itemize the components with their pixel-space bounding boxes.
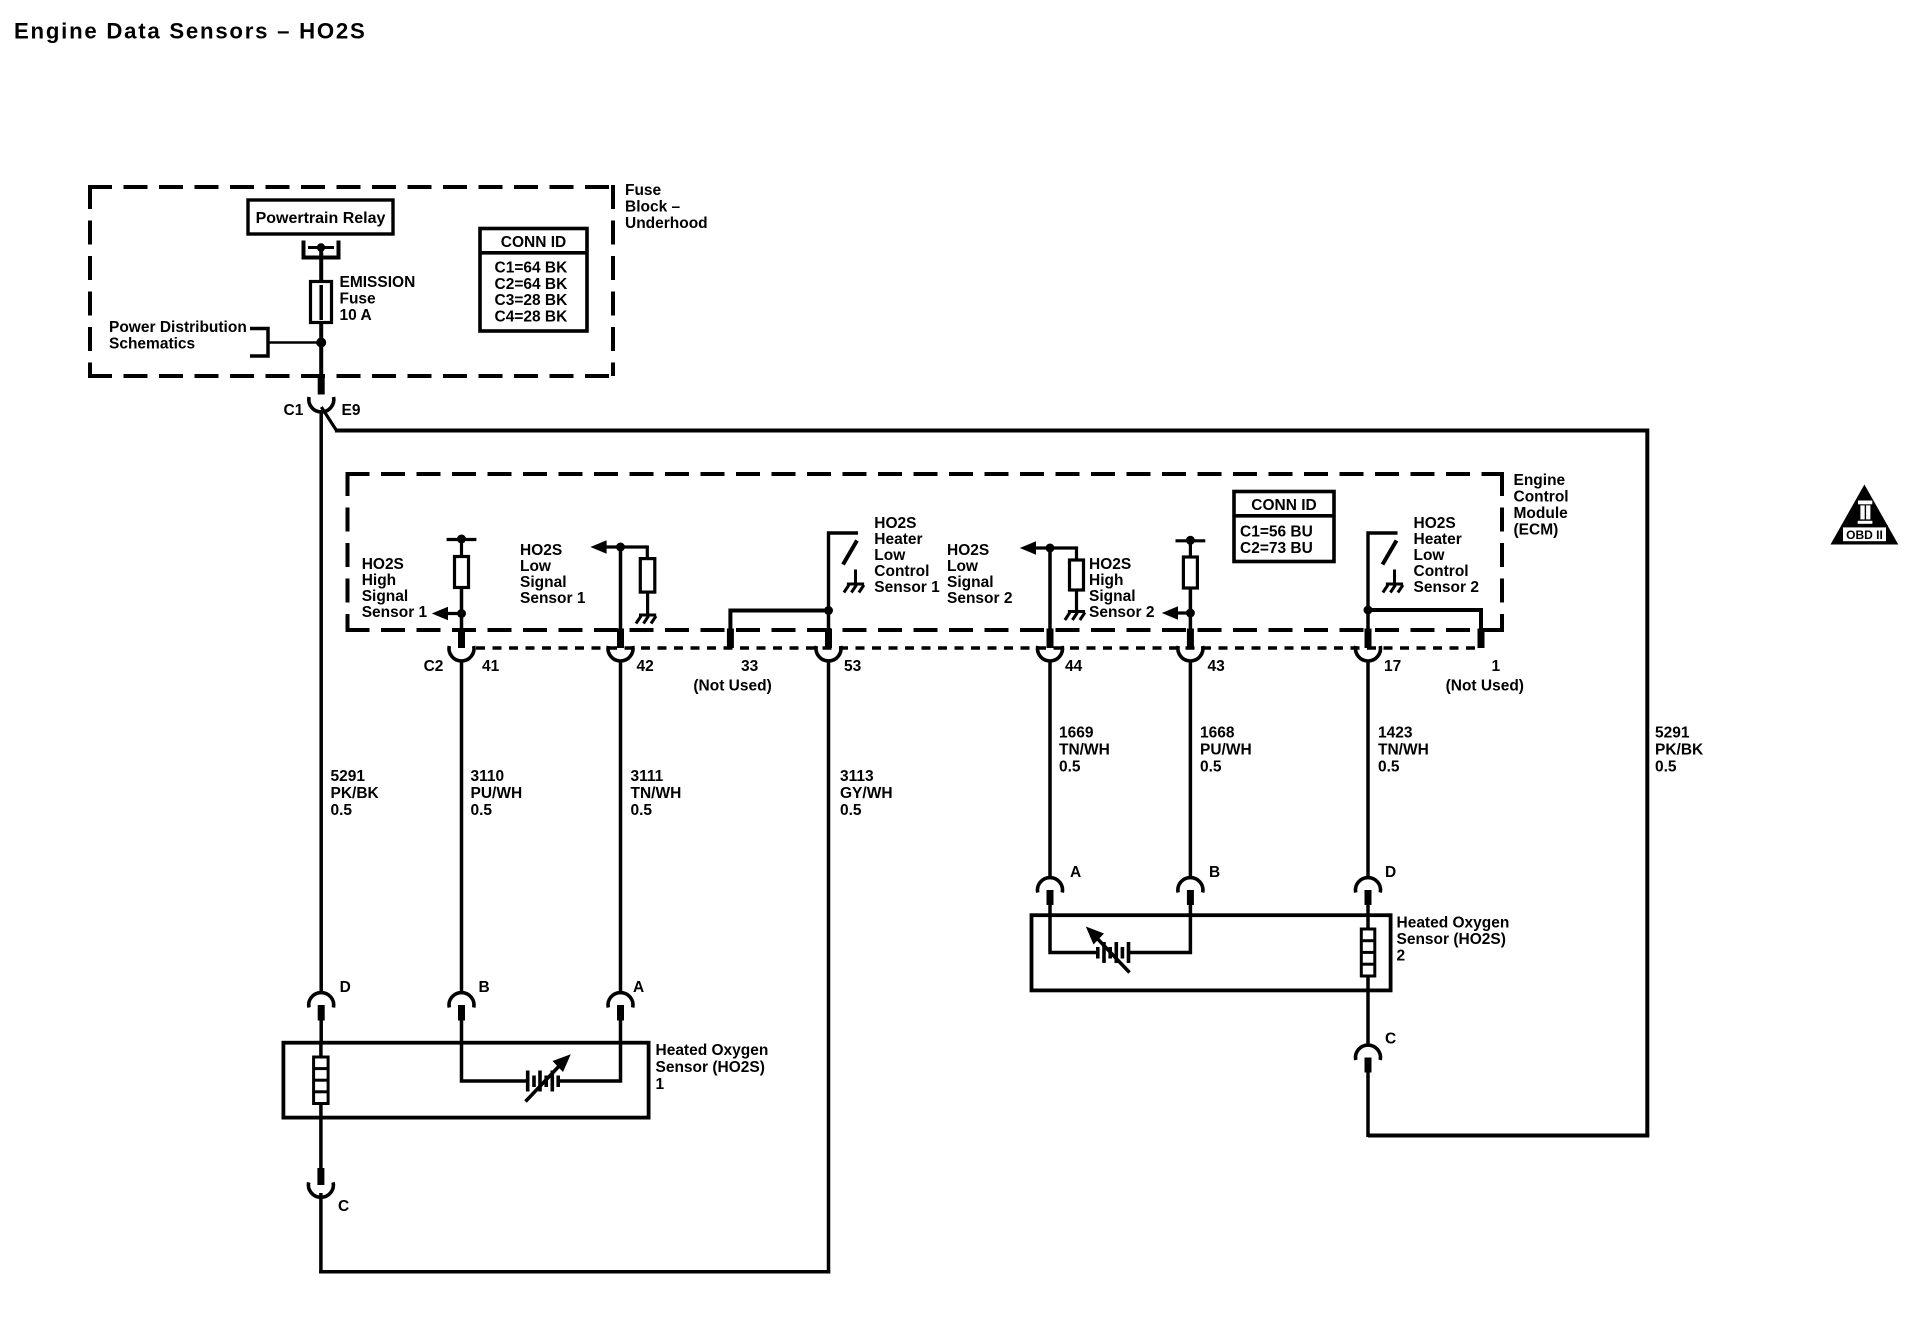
ECM dashed box — [346, 472, 1505, 630]
ground stub sensor2 heater — [1393, 570, 1396, 584]
label HO2S Low Signal Sensor 2 — [947, 542, 1012, 607]
svg-text:HO2S: HO2S — [520, 542, 562, 559]
svg-text:1669: 1669 — [1059, 725, 1094, 742]
svg-text:Heater: Heater — [1414, 531, 1462, 548]
svg-text:0.5: 0.5 — [631, 802, 653, 819]
heater element (HO2S1) — [314, 1042, 329, 1118]
svg-text:(ECM): (ECM) — [1514, 522, 1559, 539]
junction dot pin 53 — [824, 606, 833, 615]
junction dot pin 17 — [1364, 606, 1373, 615]
connector D (HO2S1) — [309, 979, 351, 1021]
svg-text:Heated Oxygen: Heated Oxygen — [1397, 915, 1510, 932]
connector A (HO2S1) — [608, 979, 644, 1021]
resistor R1 (pin 41) — [455, 557, 469, 588]
svg-text:Signal: Signal — [520, 574, 567, 591]
svg-text:Control: Control — [1514, 489, 1569, 506]
wire E9 diagonal — [321, 407, 336, 431]
svg-text:0.5: 0.5 — [1059, 759, 1081, 776]
wire pin 44 vertical — [1048, 548, 1052, 630]
junction dot — [316, 338, 326, 348]
connector D (HO2S2) — [1356, 864, 1397, 905]
svg-text:1: 1 — [1492, 658, 1501, 675]
pin 33 stub (not used) — [727, 629, 734, 649]
junction dot on T-bar — [1186, 536, 1195, 545]
svg-text:Underhood: Underhood — [625, 215, 708, 232]
svg-text:PU/WH: PU/WH — [471, 785, 523, 802]
pin 41 arc — [449, 646, 474, 661]
svg-text:53: 53 — [844, 658, 862, 675]
wire D to box — [1366, 904, 1370, 917]
wire right vertical 5291 — [1645, 429, 1649, 1136]
sensing element wire B (HO2S2) — [1130, 914, 1190, 953]
powertrain relay box — [248, 200, 393, 234]
svg-text:(Not Used): (Not Used) — [1446, 678, 1524, 695]
svg-text:PK/BK: PK/BK — [1655, 742, 1704, 759]
pin 17 arc — [1356, 646, 1381, 661]
svg-text:Low: Low — [1414, 547, 1446, 564]
svg-text:C2: C2 — [424, 658, 444, 675]
pin 42 stub — [617, 629, 624, 649]
svg-text:Low: Low — [947, 558, 979, 575]
connector B (HO2S1) — [449, 979, 490, 1021]
wire bracket to junction — [268, 341, 321, 344]
fuse block underhood dashed box — [88, 185, 615, 376]
wire B to box — [460, 1019, 464, 1044]
svg-text:Sensor 2: Sensor 2 — [1414, 579, 1479, 596]
wire 3111 TN/WH (42 to A) — [619, 661, 623, 994]
svg-text:Fuse: Fuse — [625, 182, 662, 199]
svg-text:Engine: Engine — [1514, 472, 1566, 489]
svg-text:Fuse: Fuse — [340, 291, 377, 308]
wire D to box — [319, 1019, 323, 1044]
connector C (HO2S2) — [1356, 1031, 1397, 1073]
sensing element wire A (HO2S2) — [1050, 914, 1097, 953]
switch blade sensor1 — [843, 541, 857, 565]
pin 44 arc — [1038, 646, 1063, 661]
svg-text:C1=56 BU: C1=56 BU — [1240, 524, 1313, 541]
svg-text:EMISSION: EMISSION — [340, 274, 416, 291]
wire rail corner down to resistor — [1075, 546, 1078, 561]
svg-text:0.5: 0.5 — [331, 802, 353, 819]
jumper wire 17 to 1 — [1368, 610, 1481, 630]
svg-text:5291: 5291 — [331, 768, 366, 785]
connector pin line (dotted) — [476, 646, 1477, 649]
label HO2S Low Signal Sensor 1 — [520, 542, 586, 607]
svg-text:Control: Control — [1414, 563, 1469, 580]
connector B (HO2S2) — [1178, 864, 1220, 905]
wire 3110 PU/WH (41 to B) — [460, 661, 464, 994]
svg-text:High: High — [362, 572, 396, 589]
pin 53 arc — [816, 646, 841, 661]
svg-text:OBD II: OBD II — [1846, 528, 1883, 542]
svg-text:A: A — [633, 979, 644, 996]
arrow to sensor2 low label — [1162, 606, 1195, 619]
ground (heater control sensor2) — [1383, 584, 1403, 593]
connector C (HO2S1) — [308, 1168, 349, 1215]
svg-text:C1: C1 — [284, 402, 304, 419]
svg-text:C1=64 BK: C1=64 BK — [495, 260, 569, 277]
svg-text:43: 43 — [1208, 658, 1226, 675]
fuse value label — [340, 274, 416, 324]
svg-text:B: B — [1209, 864, 1220, 881]
svg-text:CONN ID: CONN ID — [501, 234, 566, 251]
svg-text:E9: E9 — [342, 402, 361, 419]
sensing element wire A (HO2S1) — [560, 1042, 621, 1081]
jumper wire 33 to 53 — [730, 611, 828, 631]
svg-text:D: D — [1385, 864, 1396, 881]
relay K1 contact symbol — [304, 241, 339, 258]
svg-text:(Not Used): (Not Used) — [693, 678, 771, 695]
wire A to box — [1048, 904, 1052, 917]
svg-text:HO2S: HO2S — [1089, 556, 1131, 573]
wire label 1669 TN/WH 0.5 — [1059, 725, 1110, 776]
svg-text:Engine Data Sensors – HO2S: Engine Data Sensors – HO2S — [14, 19, 367, 44]
svg-text:C: C — [338, 1198, 349, 1215]
wire D2 below box to C — [1366, 990, 1370, 1046]
label Engine Control Module (ECM) — [1514, 472, 1569, 539]
ground (sensor2 high) — [1065, 612, 1085, 621]
svg-text:TN/WH: TN/WH — [1059, 742, 1110, 759]
CONN ID table (fuse block) — [480, 229, 587, 332]
svg-text:HO2S: HO2S — [362, 556, 404, 573]
svg-text:C2=64 BK: C2=64 BK — [495, 276, 569, 293]
wire bottom right horizontal — [1368, 1134, 1649, 1138]
OBD II symbol — [1831, 485, 1899, 545]
HO2S 1 box — [283, 1043, 648, 1118]
svg-text:0.5: 0.5 — [471, 802, 493, 819]
variable arrow (HO2S2) — [1086, 927, 1130, 973]
wire label 5291 PK/BK 0.5 (left) — [331, 768, 380, 819]
label HO2S High Signal Sensor 2 — [1089, 556, 1154, 621]
svg-text:HO2S: HO2S — [1414, 515, 1456, 532]
svg-text:0.5: 0.5 — [1655, 759, 1677, 776]
wire A to box — [619, 1019, 623, 1044]
resistor R2 (sensor1 low) — [640, 559, 655, 593]
internal rail T-bar pin41 — [447, 538, 477, 541]
switch L-wire pin 17 — [1368, 533, 1398, 611]
power distribution bracket — [250, 329, 268, 357]
variable sensing element bars (HO2S2) — [1098, 942, 1129, 963]
connector C1 pin E9 — [284, 377, 361, 419]
label Fuse Block Underhood — [625, 182, 708, 232]
svg-text:0.5: 0.5 — [1378, 759, 1400, 776]
wire junction to pin 17 — [1366, 610, 1370, 630]
wire resistor to pin 43 — [1189, 588, 1193, 630]
svg-text:Heater: Heater — [874, 531, 922, 548]
svg-text:Heated Oxygen: Heated Oxygen — [656, 1042, 769, 1059]
svg-text:D: D — [340, 979, 351, 996]
CONN ID table (ECM) — [1234, 492, 1334, 562]
svg-text:0.5: 0.5 — [840, 802, 862, 819]
svg-text:HO2S: HO2S — [947, 542, 989, 559]
svg-text:Signal: Signal — [947, 574, 994, 591]
arrow + rail pin 44 — [1020, 541, 1077, 554]
wire label 3113 GY/WH 0.5 — [840, 768, 893, 819]
svg-text:Sensor 2: Sensor 2 — [947, 590, 1012, 607]
wire label 3111 TN/WH 0.5 — [631, 768, 682, 819]
svg-text:33: 33 — [741, 658, 759, 675]
wire junction to pin 53 — [827, 611, 831, 631]
svg-text:Schematics: Schematics — [109, 336, 195, 353]
pin 53 stub — [825, 629, 832, 649]
junction dot on T-bar — [457, 535, 466, 544]
svg-text:Signal: Signal — [362, 588, 409, 605]
svg-text:0.5: 0.5 — [1200, 759, 1222, 776]
svg-text:Sensor 1: Sensor 1 — [874, 579, 940, 596]
svg-text:1668: 1668 — [1200, 725, 1235, 742]
svg-text:PU/WH: PU/WH — [1200, 742, 1252, 759]
wire label 1423 TN/WH 0.5 — [1378, 725, 1429, 776]
svg-text:B: B — [479, 979, 490, 996]
pin 1 stub (not used) — [1478, 629, 1485, 649]
wire relay to fuse — [319, 249, 323, 282]
wire D below box to C — [319, 1117, 323, 1169]
variable arrow (HO2S1) — [526, 1054, 571, 1101]
wire 1669 TN/WH (44 to A) — [1048, 661, 1052, 879]
svg-text:1423: 1423 — [1378, 725, 1413, 742]
svg-text:High: High — [1089, 572, 1123, 589]
label HO2S Heater Low Control Sensor 2 — [1414, 515, 1479, 596]
wire resistor to ground — [1075, 590, 1078, 611]
svg-text:A: A — [1070, 864, 1081, 881]
svg-text:C3=28 BK: C3=28 BK — [495, 292, 569, 309]
wire C2 down to bottom wire — [1366, 1072, 1370, 1137]
arrow to sensor1 high label — [432, 607, 466, 620]
svg-text:TN/WH: TN/WH — [1378, 742, 1429, 759]
variable sensing element bars (HO2S1) — [528, 1071, 559, 1092]
pin labels — [424, 658, 1524, 695]
switch blade sensor2 — [1383, 541, 1397, 565]
svg-text:Sensor (HO2S): Sensor (HO2S) — [656, 1059, 765, 1076]
svg-text:Low: Low — [520, 558, 552, 575]
svg-text:3113: 3113 — [840, 768, 874, 785]
wire resistor to ground — [646, 592, 649, 615]
svg-text:Power Distribution: Power Distribution — [109, 319, 247, 336]
svg-text:42: 42 — [637, 658, 654, 675]
label HO2S High Signal Sensor 1 — [362, 556, 428, 621]
ground (heater control sensor1) — [844, 584, 864, 593]
pin 43 arc — [1178, 646, 1203, 661]
label HO2S Heater Low Control Sensor 1 — [874, 515, 940, 596]
label Power Distribution Schematics — [109, 319, 247, 353]
resistor R3 (sensor2 high) — [1070, 560, 1084, 590]
wire 1668 PU/WH (43 to B) — [1189, 661, 1193, 879]
wire B to box — [1189, 904, 1193, 917]
wire T-bar to resistor — [1189, 541, 1192, 558]
wire E9 horizontal to right — [335, 429, 1647, 433]
wire C down to ground bus — [319, 1193, 323, 1274]
switch L-wire pin 53 — [829, 533, 859, 612]
ground stub sensor1 heater — [854, 570, 857, 584]
svg-text:Sensor 2: Sensor 2 — [1089, 604, 1154, 621]
svg-text:Module: Module — [1514, 505, 1569, 522]
ground (sensor1 low) — [636, 615, 656, 624]
svg-text:Sensor 1: Sensor 1 — [362, 604, 428, 621]
pin 44 stub — [1047, 629, 1054, 649]
svg-text:GY/WH: GY/WH — [840, 785, 893, 802]
label Heated Oxygen Sensor (HO2S) 1 — [656, 1042, 769, 1093]
svg-text:CONN ID: CONN ID — [1251, 497, 1316, 514]
svg-text:3110: 3110 — [471, 768, 505, 785]
svg-text:Block –: Block – — [625, 199, 681, 216]
svg-text:Sensor (HO2S): Sensor (HO2S) — [1397, 931, 1506, 948]
svg-text:HO2S: HO2S — [874, 515, 916, 532]
wire rail corner down to resistor — [646, 545, 649, 560]
svg-text:PK/BK: PK/BK — [331, 785, 380, 802]
pin 43 stub — [1187, 629, 1194, 649]
pin 41 stub — [458, 629, 465, 649]
svg-text:5291: 5291 — [1655, 725, 1690, 742]
sensing element wire B (HO2S1) — [462, 1042, 527, 1081]
svg-text:17: 17 — [1384, 658, 1401, 675]
HO2S 2 box — [1032, 915, 1391, 990]
wire T-bar to resistor — [460, 540, 463, 559]
svg-text:C: C — [1385, 1031, 1396, 1048]
fuse F1 EMISSION 10A — [311, 282, 332, 323]
svg-text:44: 44 — [1065, 658, 1083, 675]
wire pin 42 vertical — [619, 547, 623, 630]
svg-text:3111: 3111 — [631, 768, 664, 785]
svg-text:Sensor 1: Sensor 1 — [520, 590, 586, 607]
svg-text:41: 41 — [482, 658, 500, 675]
svg-text:1: 1 — [656, 1076, 665, 1093]
svg-text:Powertrain Relay: Powertrain Relay — [256, 210, 386, 227]
wire label 5291 PK/BK 0.5 (right) — [1655, 725, 1704, 776]
heater element (HO2S2) — [1361, 914, 1375, 991]
wire label 3110 PU/WH 0.5 — [471, 768, 523, 819]
svg-text:C2=73 BU: C2=73 BU — [1240, 540, 1313, 557]
svg-text:10 A: 10 A — [340, 307, 372, 324]
wire label 1668 PU/WH 0.5 — [1200, 725, 1252, 776]
pin 17 stub — [1365, 629, 1372, 649]
svg-text:Signal: Signal — [1089, 588, 1136, 605]
internal rail T-bar pin43 — [1176, 539, 1206, 542]
arrow + rail pin 42 — [590, 540, 647, 553]
wire fuse to C1 — [319, 323, 323, 381]
svg-text:C4=28 BK: C4=28 BK — [495, 308, 569, 325]
svg-text:TN/WH: TN/WH — [631, 785, 682, 802]
ground bus wire bottom — [319, 1270, 830, 1274]
pin 42 arc — [608, 646, 633, 661]
connector A (HO2S2) — [1038, 864, 1082, 905]
wire left main 5291 vertical — [319, 410, 323, 993]
svg-text:Low: Low — [874, 547, 906, 564]
resistor R4 (pin 43) — [1183, 557, 1197, 588]
svg-text:2: 2 — [1397, 948, 1406, 965]
svg-text:Control: Control — [874, 563, 929, 580]
label Heated Oxygen Sensor (HO2S) 2 — [1397, 915, 1510, 965]
wire 1423 TN/WH (17 to D) — [1366, 661, 1370, 879]
wire resistor to pin 41 — [460, 588, 464, 631]
wire 3113 GY/WH (53 down) — [827, 661, 831, 1274]
